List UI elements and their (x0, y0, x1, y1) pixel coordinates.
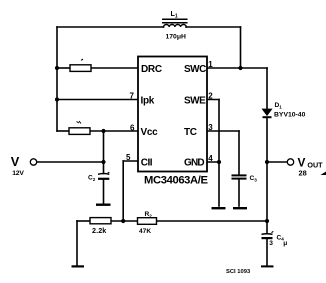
wire GND vertical to ground (218, 162, 220, 206)
wire divider row left segment (77, 220, 90, 222)
wire Vcc row right segment (91, 130, 141, 132)
capacitor C3 plates (232, 175, 247, 178)
svg-text:SWE: SWE (184, 95, 206, 106)
wire divider row middle segment (111, 220, 138, 222)
wire pin1 SWC row (204, 67, 267, 69)
resistor R (DRC row) tiny label mark (81, 59, 83, 60)
ground (C3 branch) (233, 207, 247, 209)
svg-text:SCI 1093: SCI 1093 (226, 269, 251, 275)
svg-text:170μH: 170μH (166, 33, 186, 40)
svg-text:3: 3 (208, 123, 213, 132)
wire top horizontal right of L1 (186, 26, 241, 28)
node junction dot (240.5,68) (238, 66, 242, 70)
node junction dot (103.5,162) (101, 160, 105, 164)
wire TC pin3 stub (204, 130, 239, 132)
svg-text:7: 7 (130, 92, 135, 101)
ground (divider left) (72, 265, 85, 267)
svg-text:5: 5 (126, 153, 131, 162)
wire DRC row right segment (91, 67, 141, 69)
node junction dot (57,68) (55, 66, 59, 70)
svg-text:Ipk: Ipk (141, 95, 155, 106)
node junction dot (123,221) (121, 219, 125, 223)
wire top-right vertical to SWC node (240, 27, 242, 68)
svg-text:SWC: SWC (184, 64, 206, 75)
svg-text:6: 6 (130, 124, 135, 133)
svg-text:DRC: DRC (141, 64, 162, 75)
wire DRC row left segment (57, 67, 70, 69)
svg-text:MC34063A/E: MC34063A/E (144, 175, 209, 187)
wire top horizontal left of L1 (57, 26, 164, 28)
wire left ground drop (76, 221, 78, 265)
svg-text:μ: μ (283, 240, 287, 247)
svg-text:4: 4 (208, 154, 213, 163)
svg-text:BYV10-40: BYV10-40 (274, 112, 306, 119)
mark wedge at right edge (321, 172, 326, 176)
svg-text:28: 28 (299, 169, 307, 178)
node junction dot (219,162) (217, 160, 221, 164)
capacitor C4 plates (262, 231, 274, 238)
svg-text:Vcc: Vcc (141, 127, 159, 138)
capacitor C2 plates (98, 172, 109, 179)
wire diode branch upper (266, 68, 268, 109)
wire Vcc row left segment (57, 130, 69, 132)
wire Ipk row (57, 99, 141, 101)
svg-text:47K: 47K (139, 228, 151, 235)
wire VOUT tap (267, 161, 287, 163)
ground (C4 branch) (261, 265, 274, 267)
svg-text:1: 1 (208, 60, 213, 69)
wire TC vertical to C3 (238, 131, 240, 175)
wire GND pin4 stub (204, 161, 219, 163)
wire CII pin5 stub (123, 160, 141, 162)
terminal V input circle (30, 159, 36, 165)
IC U1 MC34063A/E box (138, 57, 207, 172)
resistor R (DRC row) (70, 65, 91, 72)
wire C4 branch upper (266, 221, 268, 234)
wire SWE pin2 stub (204, 99, 219, 101)
svg-text:2.2k: 2.2k (92, 226, 106, 235)
svg-text:12V: 12V (12, 170, 24, 177)
inductor L1 core bar lower (163, 22, 187, 24)
resistor R1 2.2k (90, 218, 111, 224)
resistor R (Vcc row) tiny label mark (77, 121, 82, 124)
wire diode branch lower to VOUT node (266, 119, 268, 163)
node junction dot (267,162) (265, 160, 269, 164)
node junction dot (103.5,131) (101, 129, 105, 133)
svg-text:TC: TC (184, 127, 197, 138)
wire left vertical bus (56, 27, 58, 131)
node junction dot (57,99.5) (55, 97, 59, 101)
inductor L1 core bar upper (163, 18, 187, 20)
resistor R2 47K (138, 218, 157, 225)
ground (C2 branch) (96, 204, 111, 206)
svg-text:GND: GND (184, 158, 204, 169)
wire SWE vertical (218, 100, 220, 163)
wire V input horizontal (37, 161, 104, 163)
wire C4 branch lower (266, 239, 268, 265)
svg-text:3: 3 (269, 240, 273, 247)
wire C3 lower to ground (238, 180, 240, 207)
ground (SWE/GND line) (212, 207, 226, 209)
terminal VOUT circle (287, 159, 293, 165)
wire divider row right segment (157, 220, 268, 222)
diode D1 (262, 109, 272, 118)
wire C2 branch vertical upper (103, 131, 105, 174)
svg-text:CII: CII (141, 158, 153, 169)
resistor R (Vcc row) (69, 128, 90, 135)
node junction dot (267,221) (265, 219, 269, 223)
wire C2 branch vertical lower (103, 180, 105, 204)
wire CII vertical to divider (122, 161, 124, 221)
wire output vertical to divider row (266, 162, 268, 221)
svg-text:2: 2 (208, 92, 213, 101)
inductor L1 coil humps (164, 25, 187, 28)
svg-text:V: V (11, 154, 20, 169)
